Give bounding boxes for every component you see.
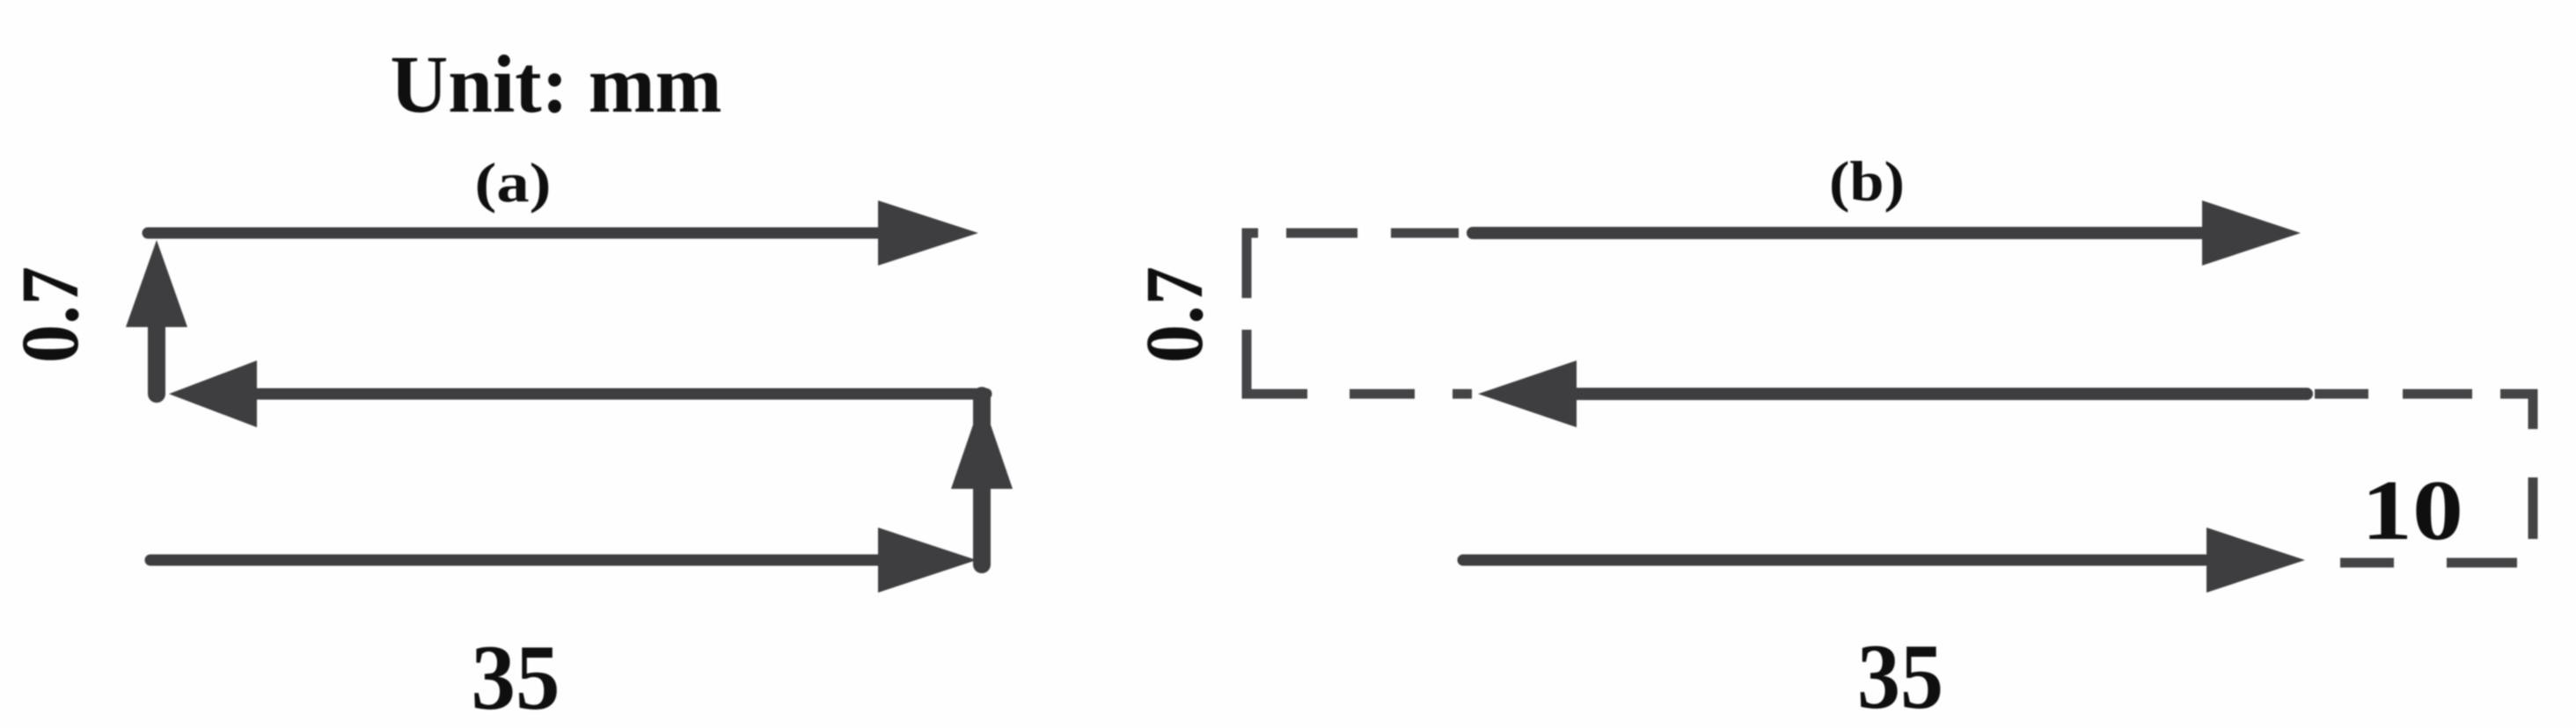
- wire: (b) middle scan line: [1575, 388, 2307, 400]
- svg-text:0.7: 0.7: [5, 266, 96, 363]
- dash (b) top 1: [1286, 229, 1358, 238]
- dash (b) bottom right 1: [2340, 558, 2394, 568]
- wire: (a) bottom scan line: [150, 555, 878, 566]
- wire: (b) bottom scan line: [1463, 555, 2205, 566]
- dashed corner (b) top-left: [1247, 233, 1258, 298]
- arrowhead (a) middle left: [169, 360, 257, 427]
- arrowhead (b) top right: [2202, 200, 2301, 266]
- wire: (a) top scan line: [148, 228, 880, 239]
- arrowhead (b) middle left: [1478, 360, 1577, 427]
- arrowhead (a) left vertical up: [126, 240, 187, 327]
- dash (b) middle 1: [1350, 389, 1415, 399]
- dashed corner (b) top-right of 10 box: [2500, 394, 2533, 429]
- dash (b) middle right 1: [2315, 389, 2368, 399]
- arrowhead (b) bottom right: [2206, 528, 2305, 593]
- wire: (b) top scan line: [1473, 227, 2201, 239]
- dash (b) middle 2: [1453, 389, 1472, 399]
- dash (b) left vertical: [1242, 330, 1252, 389]
- svg-text:10: 10: [2361, 463, 2463, 558]
- dashed corner (b) bottom-left: [1247, 387, 1307, 394]
- arrowhead (a) bottom right: [878, 528, 977, 593]
- svg-text:Unit: mm: Unit: mm: [391, 40, 722, 130]
- dash (b) top 2: [1391, 229, 1459, 238]
- svg-text:(a): (a): [475, 152, 552, 214]
- svg-text:35: 35: [472, 626, 560, 728]
- wire: (a) left vertical hatch step: [148, 325, 165, 394]
- svg-text:0.7: 0.7: [1130, 266, 1220, 363]
- svg-text:(b): (b): [1829, 150, 1905, 214]
- wire: (a) middle scan line: [255, 389, 986, 400]
- arrowhead (a) right vertical up: [951, 399, 1013, 489]
- svg-text:35: 35: [1857, 625, 1943, 728]
- dash (b) middle right 2: [2403, 389, 2472, 399]
- dash (b) bottom right 2: [2447, 558, 2517, 568]
- wire: (a) right vertical hatch step: [973, 396, 991, 564]
- dash (b) right vertical: [2528, 477, 2538, 539]
- arrowhead (a) top right: [878, 200, 978, 266]
